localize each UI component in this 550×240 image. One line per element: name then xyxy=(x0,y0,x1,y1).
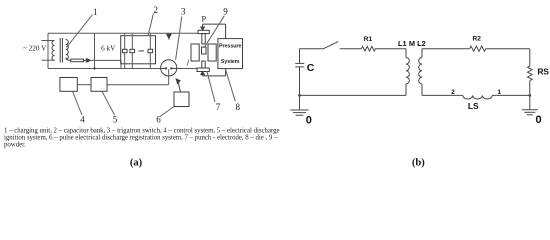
svg-text:P: P xyxy=(202,14,207,23)
svg-text:9: 9 xyxy=(223,7,228,17)
svg-text:LS: LS xyxy=(468,101,479,111)
svg-text:3: 3 xyxy=(181,7,186,17)
svg-text:j: j xyxy=(186,57,189,66)
svg-text:(b): (b) xyxy=(412,158,425,169)
svg-text:8: 8 xyxy=(235,102,240,112)
svg-text:2: 2 xyxy=(451,89,455,96)
svg-text:5: 5 xyxy=(113,115,118,125)
svg-text:0: 0 xyxy=(306,115,312,127)
svg-text:System: System xyxy=(221,59,240,65)
svg-text:~ 220 V: ~ 220 V xyxy=(23,44,47,52)
svg-text:0: 0 xyxy=(536,114,542,126)
svg-text:L1: L1 xyxy=(398,39,407,48)
svg-text:L2: L2 xyxy=(417,39,426,48)
svg-text:R2: R2 xyxy=(472,36,481,43)
svg-text:6 kV: 6 kV xyxy=(101,45,116,53)
svg-text:7: 7 xyxy=(216,102,221,112)
svg-text:ignition system, 6 – pulse ele: ignition system, 6 – pulse electrical di… xyxy=(4,134,278,141)
svg-text:M: M xyxy=(409,39,415,48)
svg-text:4: 4 xyxy=(80,115,85,125)
svg-text:2: 2 xyxy=(154,5,159,15)
svg-text:(a): (a) xyxy=(130,158,143,169)
svg-text:Pressure: Pressure xyxy=(219,43,241,49)
svg-text:6: 6 xyxy=(156,115,161,125)
svg-text:1: 1 xyxy=(93,7,98,17)
svg-text:powder.: powder. xyxy=(4,142,26,149)
svg-text:C: C xyxy=(307,62,315,74)
svg-text:R1: R1 xyxy=(364,36,373,43)
svg-text:1 – charging unit, 2 – capacit: 1 – charging unit, 2 – capacitor bank, 3… xyxy=(4,127,280,134)
svg-text:1: 1 xyxy=(497,89,501,96)
svg-text:RS: RS xyxy=(537,67,549,77)
